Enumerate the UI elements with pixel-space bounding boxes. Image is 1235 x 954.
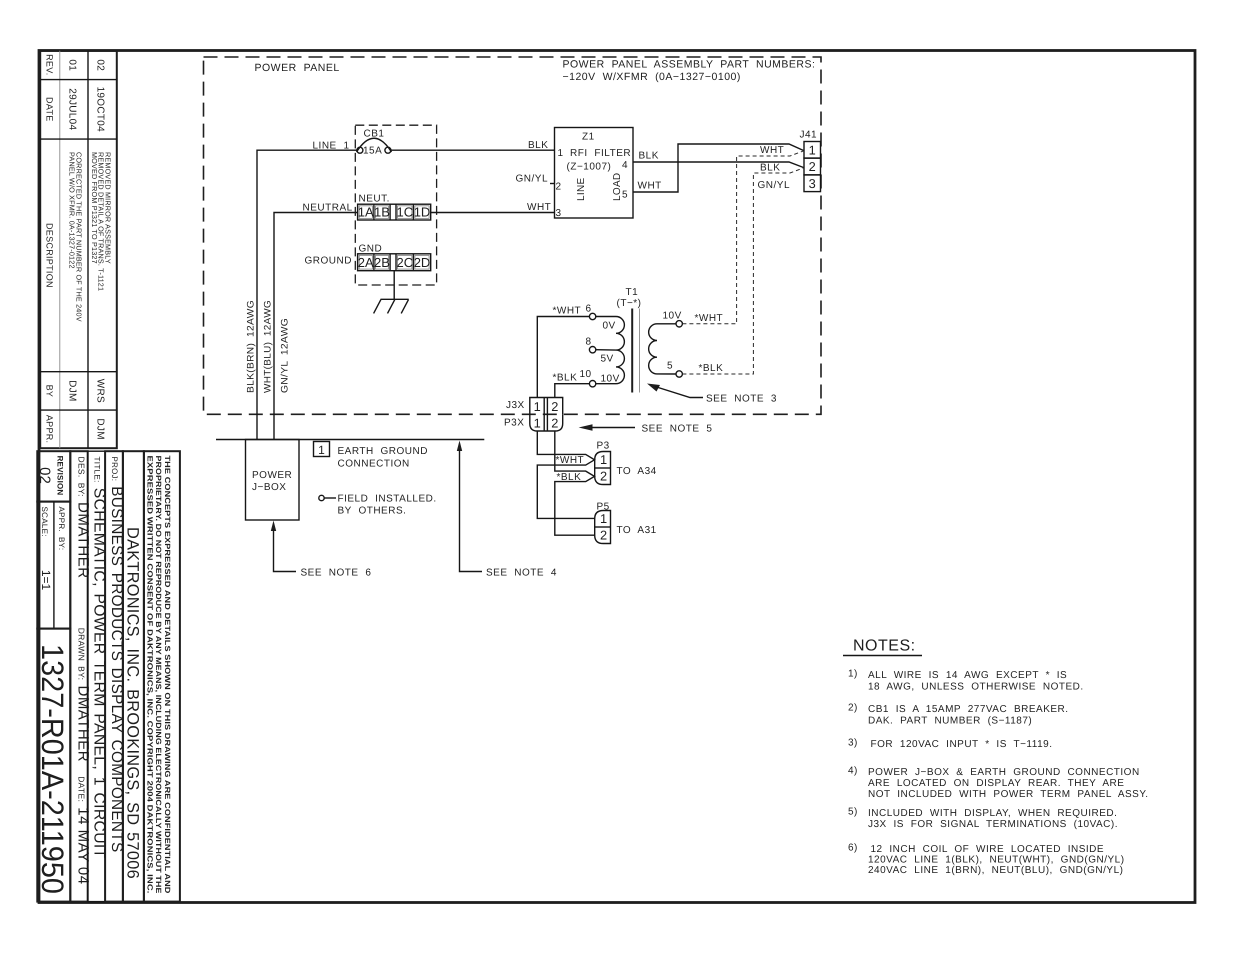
svg-text:1: 1 (534, 399, 541, 414)
svg-text:2B: 2B (374, 255, 390, 270)
svg-text:19OCT04: 19OCT04 (95, 87, 106, 133)
svg-text:DATE: DATE (45, 97, 55, 122)
field installed legend (319, 494, 437, 517)
svg-text:*WHT: *WHT (695, 313, 724, 324)
connector P3X (504, 414, 563, 431)
svg-text:12 INCH COIL OF WIRE LOCATED I: 12 INCH COIL OF WIRE LOCATED INSIDE (871, 844, 1105, 855)
svg-text:TO A34: TO A34 (617, 466, 657, 477)
daktronics address column (123, 451, 144, 901)
svg-text:POWER PANEL ASSEMBLY PART NUMB: POWER PANEL ASSEMBLY PART NUMBERS: (563, 59, 816, 71)
wire flag *BLK P3X-2 to P3-2 and P5-2 (555, 431, 595, 535)
svg-text:DESCRIPTION: DESCRIPTION (45, 223, 55, 288)
svg-text:1: 1 (809, 143, 816, 158)
svg-text:INCLUDED WITH DISPLAY, WHEN RE: INCLUDED WITH DISPLAY, WHEN REQUIRED. (868, 808, 1117, 819)
svg-text:3: 3 (556, 208, 562, 219)
svg-text:1: 1 (600, 452, 607, 467)
svg-text:J3X: J3X (506, 400, 525, 411)
svg-text:DJM: DJM (95, 418, 106, 439)
svg-text:1: 1 (318, 443, 325, 457)
NOTES (843, 638, 1149, 877)
svg-text:10V: 10V (601, 374, 620, 385)
connector P5 (595, 502, 657, 544)
wire Z1 pin5 WHT to J41 pin1 (633, 144, 804, 192)
svg-text:*WHT: *WHT (553, 306, 582, 317)
svg-text:POWER: POWER (252, 470, 292, 481)
svg-text:SEE NOTE 4: SEE NOTE 4 (486, 568, 557, 579)
svg-text:1=1: 1=1 (39, 570, 53, 591)
svg-text:J−BOX: J−BOX (252, 482, 286, 493)
svg-text:5): 5) (848, 807, 858, 818)
svg-text:BLK: BLK (528, 140, 548, 151)
svg-text:SEE NOTE 3: SEE NOTE 3 (706, 394, 777, 405)
svg-text:LINE: LINE (576, 178, 587, 201)
svg-text:1: 1 (600, 511, 607, 526)
drawing number cell (37, 629, 70, 902)
svg-text:*WHT: *WHT (556, 455, 585, 466)
svg-text:REVISION: REVISION (56, 456, 65, 496)
ground (374, 299, 409, 313)
power panel dashed enclosure (204, 57, 822, 414)
power j-box (246, 440, 300, 521)
svg-text:2): 2) (848, 703, 858, 714)
CB1 breaker dashed box (355, 125, 436, 285)
svg-text:T1: T1 (626, 287, 639, 298)
svg-text:LINE 1: LINE 1 (313, 141, 350, 152)
svg-text:2: 2 (809, 159, 816, 174)
svg-text:APPR.: APPR. (45, 415, 55, 444)
breaker CB1 (357, 129, 392, 157)
svg-text:120VAC LINE 1(BLK), NEUT(WHT),: 120VAC LINE 1(BLK), NEUT(WHT), GND(GN/YL… (868, 855, 1125, 866)
des by / drawn by / date column (70, 451, 87, 901)
svg-text:REV.: REV. (45, 54, 55, 75)
svg-text:2: 2 (556, 182, 562, 193)
T1 secondary winding (649, 324, 657, 374)
svg-text:2: 2 (600, 469, 607, 484)
svg-text:NEUT.: NEUT. (359, 194, 390, 205)
svg-text:1C: 1C (396, 205, 413, 220)
svg-text:1: 1 (534, 416, 541, 431)
svg-text:WHT(BLU) 12AWG: WHT(BLU) 12AWG (263, 300, 274, 393)
svg-text:LOAD: LOAD (612, 173, 623, 201)
revision cell (37, 451, 70, 501)
T1 core (631, 309, 633, 393)
svg-text:3): 3) (848, 738, 858, 749)
svg-text:2: 2 (600, 528, 607, 543)
terminal strip GND (358, 244, 431, 271)
svg-text:CB1 IS A 15AMP 277VAC BREAKER.: CB1 IS A 15AMP 277VAC BREAKER. (868, 704, 1069, 715)
svg-text:10V: 10V (663, 311, 682, 322)
stub Z1 pin2 (550, 183, 555, 185)
svg-text:GN/YL: GN/YL (516, 174, 549, 185)
svg-text:POWER PANEL: POWER PANEL (255, 62, 340, 74)
power panel assembly part numbers note (563, 59, 816, 84)
revision 01 description (67, 152, 83, 322)
rev table header labels (rotated) (45, 54, 55, 443)
svg-text:DAKTRONICS, INC. BROOKINGS, S: DAKTRONICS, INC. BROOKINGS, SD 57006 (124, 527, 142, 879)
T1 primary terminal 8 (589, 347, 595, 353)
svg-text:4): 4) (848, 766, 858, 777)
svg-text:POWER J−BOX & EARTH GROUND CON: POWER J−BOX & EARTH GROUND CONNECTION (868, 767, 1140, 778)
svg-text:BLK(BRN) 12AWG: BLK(BRN) 12AWG (246, 300, 257, 393)
svg-text:02: 02 (36, 467, 53, 484)
terminal strip NEUT. (358, 194, 431, 221)
see note 4 callout (457, 441, 557, 579)
svg-text:10: 10 (580, 369, 592, 380)
svg-text:P3X: P3X (504, 418, 524, 429)
wire Z1 pin4 BLK to J41 pin2 (633, 151, 804, 174)
svg-text:29JUL04: 29JUL04 (67, 88, 78, 130)
svg-text:DAK. PART NUMBER (S−1187): DAK. PART NUMBER (S−1187) (868, 716, 1032, 727)
svg-text:GN/YL: GN/YL (758, 180, 791, 191)
svg-text:PANEL W/O XFMR. 0A-1327-0122: PANEL W/O XFMR. 0A-1327-0122 (67, 152, 76, 269)
svg-text:1B: 1B (374, 205, 390, 220)
revision 01 row (67, 59, 78, 401)
svg-text:1D: 1D (414, 205, 431, 220)
svg-text:−120V W/XFMR (0A−1327−0100): −120V W/XFMR (0A−1327−0100) (563, 71, 741, 83)
svg-text:WHT: WHT (527, 202, 551, 213)
svg-text:15A: 15A (363, 146, 382, 157)
TITLE-BLOCK (35, 451, 180, 901)
svg-text:1: 1 (558, 148, 564, 159)
svg-text:TO A31: TO A31 (617, 525, 657, 536)
see note 6 callout (271, 521, 372, 579)
svg-text:GROUND: GROUND (305, 256, 352, 267)
svg-text:ALL WIRE IS 14 AWG EXCEPT * IS: ALL WIRE IS 14 AWG EXCEPT * IS (868, 670, 1067, 681)
svg-text:2: 2 (551, 416, 558, 431)
svg-text:0V: 0V (603, 321, 616, 332)
wire CB1 to Z1 pin1 (391, 149, 555, 151)
svg-text:J41: J41 (800, 130, 818, 141)
wire *WHT primary 6 to J3X pin1 (537, 306, 589, 398)
svg-text:(Z−1007): (Z−1007) (567, 162, 612, 173)
svg-text:FOR 120VAC INPUT * IS T−1119.: FOR 120VAC INPUT * IS T−1119. (871, 739, 1053, 750)
svg-text:1A: 1A (358, 205, 374, 220)
svg-text:NEUTRAL: NEUTRAL (303, 203, 353, 214)
T1 secondary terminal 10V (676, 321, 682, 327)
svg-text:GN/YL 12AWG: GN/YL 12AWG (280, 318, 291, 393)
svg-text:1327-R01A-211950: 1327-R01A-211950 (35, 644, 70, 894)
revision 02 description (90, 152, 112, 291)
T1 primary winding (616, 317, 624, 384)
svg-text:8: 8 (586, 337, 592, 348)
svg-text:CONNECTION: CONNECTION (338, 459, 410, 470)
scale / appr cell (37, 502, 70, 629)
T1 secondary terminal 5 (676, 371, 682, 377)
connector J3X (506, 398, 563, 415)
svg-text:ARE LOCATED ON DISPLAY REAR. T: ARE LOCATED ON DISPLAY REAR. THEY ARE (868, 778, 1124, 789)
svg-text:2C: 2C (396, 255, 413, 270)
svg-text:BLK: BLK (760, 163, 780, 174)
svg-text:2: 2 (551, 399, 558, 414)
svg-text:2A: 2A (358, 255, 374, 270)
svg-text:2D: 2D (414, 255, 431, 270)
svg-text:EARTH GROUND: EARTH GROUND (338, 446, 428, 457)
svg-text:SEE NOTE 5: SEE NOTE 5 (642, 424, 713, 435)
svg-text:18 AWG, UNLESS OTHERWISE NOTED: 18 AWG, UNLESS OTHERWISE NOTED. (868, 682, 1084, 693)
svg-text:P3: P3 (597, 441, 610, 452)
svg-text:01: 01 (67, 59, 78, 71)
svg-text:240VAC LINE 1(BRN), NEUT(BLU),: 240VAC LINE 1(BRN), NEUT(BLU), GND(GN/YL… (868, 865, 1123, 876)
svg-text:4: 4 (622, 160, 628, 171)
svg-text:APPR. BY:: APPR. BY: (57, 507, 66, 551)
svg-text:J3X IS FOR SIGNAL TERMINATIONS: J3X IS FOR SIGNAL TERMINATIONS (10VAC). (868, 819, 1118, 830)
connector P3 (595, 441, 657, 485)
svg-text:3: 3 (809, 176, 816, 191)
proprietary legal column (144, 451, 180, 901)
svg-text:*BLK: *BLK (553, 373, 578, 384)
RFI filter Z1 (555, 128, 634, 220)
svg-text:WRS: WRS (95, 379, 106, 403)
wire LINE 1 (257, 141, 357, 440)
svg-text:FIELD INSTALLED.: FIELD INSTALLED. (338, 494, 437, 505)
svg-text:WHT: WHT (760, 145, 784, 156)
svg-text:*BLK: *BLK (699, 363, 724, 374)
revision 02 row (95, 59, 106, 439)
transformer T1 (580, 287, 683, 393)
svg-text:DJM: DJM (67, 380, 78, 401)
svg-text:6): 6) (848, 843, 858, 854)
REVISION-TABLE (40, 51, 117, 448)
svg-text:5V: 5V (601, 354, 614, 365)
svg-text:NOTES:: NOTES: (853, 638, 916, 655)
wire NEUTRAL (274, 203, 358, 440)
svg-text:*BLK: *BLK (557, 472, 582, 483)
see note 5 callout (579, 424, 713, 435)
svg-text:BY OTHERS.: BY OTHERS. (338, 506, 407, 517)
svg-text:(T−*): (T−*) (617, 298, 642, 309)
wire to earth ground (393, 271, 395, 300)
see note 3 callout (647, 384, 777, 405)
svg-text:BLK: BLK (639, 151, 659, 162)
svg-text:MOVED FROM P1321 TO P1327: MOVED FROM P1321 TO P1327 (90, 152, 99, 264)
wire 1D to Z1 pin3 (431, 212, 555, 214)
svg-text:1): 1) (848, 669, 858, 680)
T1 primary terminal 10 (589, 381, 595, 387)
svg-text:EXPRESSED WRITTEN CONSENT OF D: EXPRESSED WRITTEN CONSENT OF DAKTRONICS,… (146, 456, 155, 894)
svg-text:SCALE:: SCALE: (40, 507, 49, 537)
dashed wire *BLK T1 secondary to J41 pin2 (682, 168, 803, 374)
earth ground connection legend (314, 442, 428, 470)
svg-text:RFI FILTER: RFI FILTER (570, 148, 631, 159)
svg-text:NOT INCLUDED WITH POWER TERM P: NOT INCLUDED WITH POWER TERM PANEL ASSY. (868, 789, 1149, 800)
dashed wire *WHT T1 secondary to J41 pin1 (682, 151, 803, 324)
proj column (105, 451, 123, 901)
svg-text:02: 02 (95, 59, 106, 71)
connector J41 (800, 130, 821, 192)
svg-text:Z1: Z1 (582, 132, 595, 143)
svg-text:BY: BY (45, 385, 55, 398)
T1 primary terminal 6 (589, 313, 595, 319)
svg-text:6: 6 (586, 304, 592, 315)
wire *BLK primary 10 to J3X pin2 (553, 373, 590, 398)
svg-text:WHT: WHT (638, 181, 662, 192)
svg-text:5: 5 (667, 361, 673, 372)
svg-text:SEE NOTE 6: SEE NOTE 6 (301, 568, 372, 579)
display rear boundary line (216, 439, 484, 441)
svg-text:GND: GND (359, 244, 383, 255)
wire flag *WHT P3X-1 to P3-1 and P5-1 (537, 431, 594, 518)
title column (88, 451, 105, 901)
